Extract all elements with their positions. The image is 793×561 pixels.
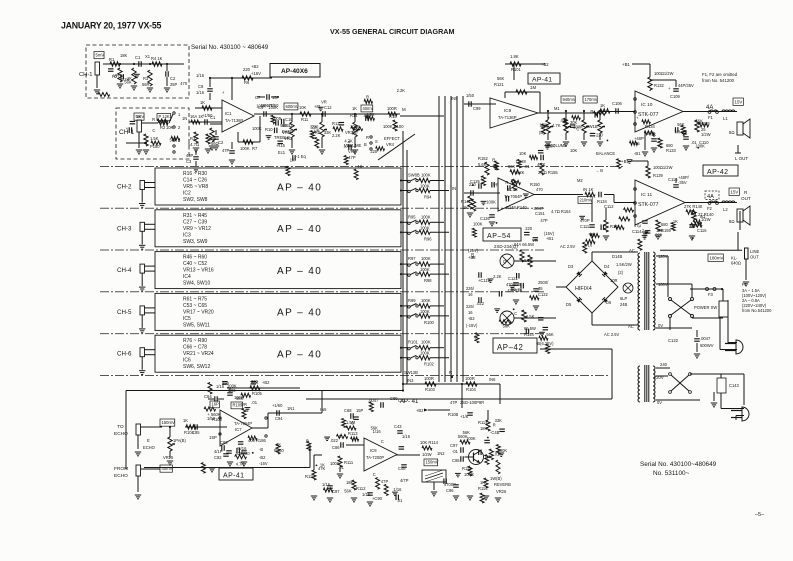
svg-text:D3: D3 [568,264,574,269]
svg-text:C126: C126 [480,216,491,221]
svg-text:1/50: 1/50 [466,93,475,98]
svg-text:C: C [373,472,376,477]
svg-text:SW6, SW12: SW6, SW12 [183,364,210,370]
svg-text:35: 35 [538,286,543,291]
svg-text:R3: R3 [143,76,149,81]
svg-text:C83: C83 [220,440,228,445]
svg-text:1K: 1K [200,100,205,105]
svg-text:D4: D4 [604,264,610,269]
svg-text:F2: F2 [742,282,748,287]
svg-text:-01: -01 [452,449,459,454]
svg-text:56K: 56K [508,164,516,169]
svg-text:56K: 56K [280,123,288,128]
svg-text:150mV: 150mV [162,420,175,425]
svg-text:C86: C86 [332,445,340,450]
svg-text:IC4: IC4 [183,274,191,280]
svg-text:C: C [481,176,484,181]
svg-text:1K: 1K [320,463,325,468]
svg-text:VR3: VR3 [284,136,293,141]
svg-text:27K R140: 27K R140 [684,204,703,209]
svg-text:1/16: 1/16 [393,487,402,492]
svg-text:1N1: 1N1 [287,406,295,411]
svg-text:1/16: 1/16 [373,429,382,434]
svg-text:IN3: IN3 [407,378,414,383]
svg-text:C95: C95 [452,458,460,463]
svg-text:R7: R7 [252,146,258,151]
svg-text:1PA(B): 1PA(B) [173,438,187,443]
svg-text:180mV: 180mV [710,255,724,260]
svg-text:56K: 56K [677,122,685,127]
svg-text:25P: 25P [170,82,178,87]
svg-text:R96: R96 [424,236,432,241]
svg-text:R: R [590,109,593,114]
svg-text:C40 ~ C52: C40 ~ C52 [183,261,207,267]
svg-text:-16V: -16V [259,461,268,466]
svg-text:L OUT: L OUT [735,156,748,161]
svg-text:SW4, SW10: SW4, SW10 [183,281,210,287]
svg-text:-35V: -35V [678,180,687,185]
svg-text:AC 2.5V: AC 2.5V [604,332,620,337]
svg-text:100K: 100K [421,340,431,345]
svg-text:SW5, SW11: SW5, SW11 [183,322,210,328]
svg-text:C1: C1 [135,55,141,60]
svg-text:R102: R102 [424,362,435,367]
svg-text:M2: M2 [577,178,583,183]
svg-text:100K: 100K [421,256,431,261]
svg-text:1W(B): 1W(B) [490,476,502,481]
svg-text:600WV: 600WV [700,343,714,348]
svg-text:VR26: VR26 [496,489,507,494]
svg-text:-C4B: -C4B [490,430,500,435]
svg-text:CH-2: CH-2 [117,184,132,191]
svg-text:C114: C114 [632,229,642,234]
svg-text:R31 ~ R45: R31 ~ R45 [183,213,207,219]
svg-text:C85: C85 [192,430,200,435]
svg-text:R94: R94 [424,195,432,200]
svg-text:R: R [505,180,508,185]
svg-text:CH-6: CH-6 [117,351,132,358]
svg-text:R105: R105 [252,391,263,396]
svg-text:AP–42: AP–42 [497,343,523,352]
svg-text:1.5K: 1.5K [150,136,159,141]
svg-text:SW12B: SW12B [404,370,418,375]
svg-text:47P: 47P [381,479,389,484]
svg-text:1.5K/2W: 1.5K/2W [616,262,632,267]
svg-text:HIFIX4: HIFIX4 [575,286,592,292]
svg-text:R101: R101 [408,340,419,345]
svg-text:ECHO: ECHO [114,473,128,479]
svg-text:47P: 47P [540,218,548,223]
svg-text:from No. 541200: from No. 541200 [702,78,735,83]
svg-text:47μ: 47μ [634,223,642,228]
svg-text:1/16: 1/16 [690,223,699,228]
svg-text:AP – 40: AP – 40 [277,224,322,235]
svg-text:R: R [366,95,369,100]
svg-text:56K: 56K [463,430,471,435]
svg-text:IN 1K: IN 1K [583,187,594,192]
svg-text:24B: 24B [620,302,628,307]
svg-text:R10: R10 [265,127,273,132]
svg-text:S: S [375,139,378,144]
svg-text:100K: 100K [473,222,483,227]
svg-text:56K: 56K [503,324,511,329]
svg-text:10K: 10K [166,125,174,130]
svg-text:1K: 1K [183,418,188,423]
svg-text:0V: 0V [657,400,662,405]
svg-text:18K: 18K [120,53,128,58]
svg-text:P 12K: P 12K [159,114,170,119]
svg-text:OUT: OUT [741,196,751,201]
svg-text:56K: 56K [546,332,554,337]
svg-text:47P: 47P [266,103,274,108]
svg-text:R: R [493,423,496,428]
svg-text:R152: R152 [478,156,489,161]
svg-text:C88: C88 [344,408,352,413]
svg-text:IC6: IC6 [183,358,191,364]
svg-text:POWER SW: POWER SW [694,305,717,310]
svg-text:R134: R134 [645,124,656,129]
svg-text:4/1P: 4/1P [214,449,223,454]
svg-text:C43: C43 [394,424,402,429]
svg-text:600mV: 600mV [286,104,299,109]
svg-text:+B2: +B2 [541,62,549,67]
svg-text:100K: 100K [486,199,496,204]
svg-text:R: R [152,117,155,122]
svg-text:EFFECT: EFFECT [384,136,400,141]
svg-text:AP – 40: AP – 40 [277,182,322,193]
svg-text:220: 220 [370,149,378,154]
svg-text:VR: VR [321,100,327,105]
svg-text:R139: R139 [653,173,664,178]
svg-text:2.2K: 2.2K [397,88,406,93]
svg-text:+B1: +B1 [546,236,554,241]
svg-text:1K: 1K [673,219,678,224]
svg-text:240: 240 [660,362,668,367]
svg-text:AP-41: AP-41 [532,77,552,84]
svg-text:C82: C82 [214,455,222,460]
svg-text:R16 ~ R30: R16 ~ R30 [183,171,207,177]
svg-text:-B1: -B1 [634,151,641,156]
svg-text:R104: R104 [466,387,477,392]
svg-text:4.7K: 4.7K [537,162,546,167]
svg-text:P150: P150 [150,144,160,149]
svg-text:5mV: 5mV [96,53,105,58]
svg-text:R133: R133 [666,148,677,153]
svg-text:1/16: 1/16 [196,90,205,95]
svg-text:C2: C2 [170,76,176,81]
svg-text:Serial No. 430100~480649: Serial No. 430100~480649 [640,461,717,468]
svg-text:R103: R103 [425,387,436,392]
svg-text:C89: C89 [390,396,398,401]
svg-text:IC 11: IC 11 [641,192,652,198]
svg-text:100R: 100R [387,106,397,111]
svg-text:CH-4: CH-4 [117,267,132,274]
svg-text:8Ω: 8Ω [729,219,734,224]
svg-text:F2: F2 [707,206,713,211]
svg-text:–5–: –5– [755,512,765,518]
svg-text:C87: C87 [332,489,340,494]
svg-text:220: 220 [243,451,251,456]
svg-text:15V: 15V [731,189,739,194]
svg-text:R132: R132 [654,83,665,88]
svg-text:C1: C1 [210,115,216,120]
svg-text:.022: .022 [476,301,485,306]
svg-text:C2: C2 [218,140,224,145]
svg-text:4.7K: 4.7K [344,139,353,144]
svg-text:-B(6.25V): -B(6.25V) [536,341,554,346]
svg-text:R11: R11 [301,117,309,122]
svg-text:C8: C8 [198,84,204,89]
svg-text:100K: 100K [420,309,430,314]
svg-text:R101: R101 [511,67,522,72]
svg-text:56K: 56K [497,76,505,81]
svg-text:SW8B: SW8B [408,173,420,178]
svg-text:R: R [366,135,369,140]
svg-text:+: + [668,86,671,91]
svg-text:C53 ~ C65: C53 ~ C65 [183,303,207,309]
svg-text:(-15V): (-15V) [466,323,478,328]
svg-text:100K: 100K [420,351,430,356]
svg-text:10K: 10K [570,148,578,153]
svg-text:1N: 1N [182,116,187,121]
svg-text:R98: R98 [424,278,432,283]
svg-text:100Ω1/2W: 100Ω1/2W [653,165,673,170]
svg-text:940mV: 940mV [563,97,576,102]
svg-text:15P: 15P [209,435,217,440]
svg-text:.01: .01 [251,400,257,405]
svg-text:VR: VR [241,402,247,407]
svg-text:VR25: VR25 [163,455,174,460]
svg-text:C122: C122 [668,338,679,343]
svg-text:150mV: 150mV [426,460,439,465]
svg-text:AP–54: AP–54 [487,233,511,240]
svg-text:IC2: IC2 [183,191,191,197]
svg-text:1M: 1M [530,85,536,90]
svg-text:4.7K: 4.7K [366,112,375,117]
svg-text:AC 2.5V: AC 2.5V [560,244,576,249]
svg-text:R148 R140: R148 R140 [506,205,527,210]
svg-text:4A: 4A [707,194,714,200]
svg-text:VR: VR [675,129,681,134]
svg-text:1K: 1K [357,164,362,169]
svg-text:100K: 100K [421,214,431,219]
svg-text:1/16: 1/16 [584,243,593,248]
svg-text:10R: 10R [610,278,618,283]
svg-text:+#1: +#1 [314,104,322,109]
svg-text:C: C [351,421,354,426]
svg-text:47P: 47P [348,155,356,160]
svg-text:+B1: +B1 [622,62,630,67]
svg-text:16P: 16P [212,402,220,407]
svg-text:100K: 100K [252,126,262,131]
svg-text:R99: R99 [408,298,416,303]
svg-text:1K: 1K [352,106,357,111]
svg-text:16: 16 [468,292,473,297]
svg-text:100K: 100K [539,122,549,127]
svg-text:40mV: 40mV [162,466,173,471]
svg-text:IC7: IC7 [235,427,242,432]
svg-text:R100: R100 [424,320,435,325]
svg-text:4.7Ω R154: 4.7Ω R154 [551,209,571,214]
svg-text:C143: C143 [729,383,740,388]
svg-text:TA-7064P: TA-7064P [234,421,252,426]
svg-text:100K: 100K [420,184,430,189]
svg-text:R6: R6 [244,80,250,85]
svg-text:VX-55 GENERAL CIRCUIT DIAGRAM: VX-55 GENERAL CIRCUIT DIAGRAM [330,27,454,36]
svg-text:C96: C96 [446,488,454,493]
svg-text:IC3: IC3 [183,232,191,238]
svg-text:X1: X1 [145,54,151,59]
svg-text:+B2: +B2 [262,380,270,385]
svg-text:L1: L1 [723,116,728,121]
svg-text:TA-7136P: TA-7136P [225,118,243,123]
svg-text:1/16: 1/16 [196,73,205,78]
svg-text:226/: 226/ [466,304,475,309]
svg-text:REVERB: REVERB [494,482,511,487]
svg-text:8Ω: 8Ω [700,214,705,219]
svg-text:2.2K: 2.2K [493,274,502,279]
svg-text:M1: M1 [554,106,560,111]
svg-text:L2: L2 [723,207,728,212]
svg-text:C97: C97 [450,443,458,448]
svg-text:IC8: IC8 [370,448,377,453]
svg-text:AC: AC [628,324,634,329]
svg-text:F3: F3 [708,292,714,297]
svg-text:LINE: LINE [750,249,760,254]
svg-text:-B2: -B2 [468,316,475,321]
svg-text:AP – 40: AP – 40 [277,266,322,277]
svg-text:R61 ~ R75: R61 ~ R75 [183,296,207,302]
svg-text:AP – 40: AP – 40 [277,350,322,361]
svg-text:R147: R147 [461,199,472,204]
svg-text:R121: R121 [494,82,505,87]
svg-text:STK-077: STK-077 [638,112,659,118]
svg-text:VR17 ~ VR20: VR17 ~ VR20 [183,309,214,315]
svg-text:R4 1K: R4 1K [151,56,163,61]
svg-text:C3: C3 [186,159,192,164]
svg-text:R: R [471,252,474,257]
svg-text:100K: 100K [421,173,431,178]
svg-text:R95: R95 [408,214,416,219]
svg-text:43P: 43P [186,153,194,158]
svg-text:4.7K: 4.7K [552,123,561,128]
svg-text:C106: C106 [612,101,623,106]
svg-text:(B): (B) [352,130,358,135]
svg-text:C116: C116 [697,228,707,233]
svg-text:BALANCE: BALANCE [596,151,615,156]
svg-text:Ec1: Ec1 [278,150,286,155]
svg-text:R14: R14 [350,113,358,118]
svg-text:1K: 1K [463,205,468,210]
svg-text:JANUARY 20, 1977 VX-55: JANUARY 20, 1977 VX-55 [61,21,161,31]
svg-text:33K: 33K [324,130,332,135]
svg-text:+1/60: +1/60 [272,403,283,408]
svg-text:CH-1: CH-1 [79,72,93,78]
svg-text:VR21 ~ VR24: VR21 ~ VR24 [183,351,214,357]
svg-text:2.2K: 2.2K [332,133,341,138]
svg-text:100K: 100K [420,225,430,230]
svg-text:SW2, SW8: SW2, SW8 [183,197,208,203]
svg-text:220: 220 [469,182,477,187]
svg-text:220: 220 [525,226,533,231]
svg-text:2500/: 2500/ [538,280,549,285]
svg-text:R144: R144 [524,332,535,337]
svg-text:10K: 10K [519,151,527,156]
svg-text:1/16: 1/16 [402,434,411,439]
svg-text:IN5: IN5 [451,96,458,101]
svg-text:M: M [402,107,406,112]
svg-text:from No.541200: from No.541200 [742,308,772,313]
svg-text:.01: .01 [494,451,500,456]
svg-text:56K: 56K [696,118,704,123]
svg-text:C: C [152,128,155,133]
svg-text:44P/35V: 44P/35V [678,83,694,88]
svg-text:R46 ~ R60: R46 ~ R60 [183,255,207,261]
svg-text:+B2: +B2 [251,64,259,69]
svg-text:IN: IN [452,186,456,191]
svg-text:1K: 1K [600,103,605,108]
svg-text:15V: 15V [735,99,743,104]
svg-text:1.8K: 1.8K [510,54,519,59]
svg-text:E: E [147,438,150,443]
svg-text:IN6: IN6 [489,377,496,382]
svg-text:R1: R1 [109,57,115,62]
svg-text:C94: C94 [275,416,283,421]
svg-text:54.7Ω: 54.7Ω [188,142,199,147]
svg-text:SW1B: SW1B [586,124,598,129]
svg-text:100K: 100K [421,298,431,303]
svg-text:VR4: VR4 [386,142,395,147]
svg-text:1N2: 1N2 [437,451,445,456]
svg-text:No. 531100~: No. 531100~ [653,470,690,477]
svg-text:OUT: OUT [750,255,759,260]
svg-text:ECHO: ECHO [143,445,155,450]
svg-text:40mV: 40mV [363,106,374,111]
svg-text:10K R114: 10K R114 [420,440,439,445]
svg-text:VR5 ~ VR8: VR5 ~ VR8 [183,184,208,190]
svg-text:33K: 33K [251,380,259,385]
svg-text:IC9: IC9 [504,108,512,113]
svg-text:.022: .022 [330,438,339,443]
svg-text:R: R [306,439,309,444]
svg-text:IC1: IC1 [225,111,232,116]
svg-text:C: C [339,434,342,439]
svg-text:56K: 56K [548,144,556,149]
svg-text:C: C [474,334,477,339]
svg-text:47P: 47P [450,400,458,405]
svg-text:100K: 100K [466,436,476,441]
svg-text:15P: 15P [356,408,364,413]
svg-text:100K: 100K [695,144,705,149]
svg-text:680: 680 [661,222,669,227]
svg-text:R97: R97 [408,256,416,261]
svg-text:CH-3: CH-3 [117,225,132,232]
svg-text:IC 10: IC 10 [641,102,653,108]
svg-text:220: 220 [311,125,319,130]
svg-text:220: 220 [596,132,604,137]
svg-text:C14 ~ C26: C14 ~ C26 [183,178,207,184]
svg-text:100R: 100R [465,376,475,381]
svg-text:+C90: +C90 [372,496,383,501]
svg-text:+B2: +B2 [416,408,424,413]
svg-text:1/2W: 1/2W [422,452,432,457]
svg-text:CH-5: CH-5 [117,309,132,316]
svg-text:100K: 100K [256,103,266,108]
svg-text:C: C [381,439,384,444]
svg-text:C115: C115 [668,177,678,182]
svg-text:STK-077: STK-077 [638,202,659,208]
svg-text:210mV: 210mV [580,197,593,202]
